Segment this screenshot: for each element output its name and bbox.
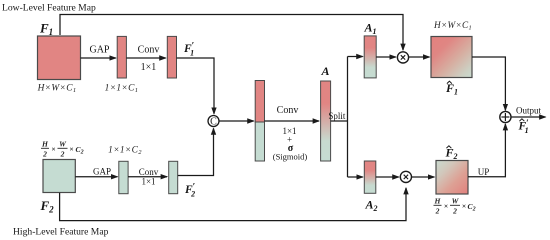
svg-text:×: × (444, 202, 448, 211)
svg-text:2: 2 (60, 150, 65, 159)
svg-text:F′1: F′1 (183, 42, 195, 58)
wire low-level skip connection top (60, 15, 403, 51)
bar A attention (321, 81, 331, 161)
feature map F2 (43, 160, 75, 193)
svg-text:F′2: F′2 (184, 183, 196, 199)
bar F2prime (169, 161, 178, 193)
wire multiply2 to F2hat (412, 176, 435, 178)
svg-text:×: × (462, 202, 466, 211)
node multiply 2 (400, 171, 411, 182)
svg-text:H: H (41, 140, 49, 149)
svg-text:GAP: GAP (93, 167, 111, 177)
wire F2hat UP to add (468, 124, 505, 177)
svg-text:H×W×C1: H×W×C1 (433, 20, 472, 32)
feature map F1 (38, 36, 81, 80)
node add output (500, 111, 511, 122)
bar concat green half (255, 122, 264, 161)
svg-text:Low-Level Feature Map: Low-Level Feature Map (2, 3, 96, 14)
svg-text:2: 2 (435, 207, 440, 216)
wire multiply1 to F1hat (409, 56, 430, 58)
wire GAP arrow F2 to bar (75, 176, 117, 178)
wire conv sigmoid arrow to A (265, 120, 320, 122)
svg-text:2: 2 (42, 150, 47, 159)
svg-text:1×1×C1: 1×1×C1 (105, 84, 139, 95)
wire high-level skip connection bottom (60, 188, 406, 221)
svg-text:Split: Split (328, 111, 346, 121)
bar GAP result 1x1xC1 (117, 36, 126, 78)
bar concat red half (255, 81, 264, 123)
svg-text:Output: Output (516, 106, 542, 116)
wire Conv arrow top (126, 57, 165, 59)
label H/2 x W/2 x C2 below F2hat (434, 197, 476, 216)
bar A1 (364, 36, 376, 78)
node multiply 1 (397, 52, 408, 63)
svg-text:UP: UP (478, 167, 490, 177)
wire output arrow (511, 116, 546, 118)
feature map F2hat (436, 161, 468, 195)
wire C to concat bar (219, 120, 254, 122)
label H/2 x W/2 x C2 above F2 (41, 140, 84, 159)
svg-text:×: × (69, 145, 73, 154)
svg-text:A: A (321, 64, 330, 78)
svg-text:F′1: F′1 (518, 119, 530, 135)
wire A to split junction (331, 120, 348, 122)
bar A2 (364, 161, 376, 193)
svg-text:1×1: 1×1 (141, 62, 157, 73)
svg-text:C: C (210, 117, 217, 128)
svg-text:H×W×C1: H×W×C1 (37, 84, 77, 95)
wire F1hat to add (472, 57, 505, 110)
feature map F1hat (431, 37, 472, 78)
svg-text:×: × (51, 145, 55, 154)
svg-text:1×1: 1×1 (141, 177, 155, 187)
svg-text:Conv: Conv (277, 105, 299, 116)
wire A1 to multiply (376, 56, 396, 58)
wire A2 to multiply2 (376, 176, 399, 178)
wire Conv arrow bottom (128, 176, 167, 178)
svg-text:GAP: GAP (89, 45, 109, 56)
svg-text:(Sigmoid): (Sigmoid) (273, 152, 308, 162)
wire split vertical (347, 57, 349, 178)
bar GAP result 1x1xC2 (119, 161, 128, 193)
wire split to A2 (348, 176, 363, 178)
wire split to A1 (348, 56, 363, 58)
svg-text:H: H (434, 197, 442, 206)
svg-text:Conv: Conv (138, 45, 160, 56)
node concat C circle (208, 116, 219, 127)
wire GAP arrow F1 to bar (81, 57, 116, 59)
bar F1prime (167, 36, 176, 78)
svg-text:High-Level Feature Map: High-Level Feature Map (13, 227, 109, 238)
wire F2prime to concat C (178, 128, 214, 175)
svg-text:2: 2 (452, 207, 457, 216)
wire F1prime to concat C (177, 58, 215, 114)
svg-text:Conv: Conv (139, 167, 159, 177)
svg-text:1×1×C2: 1×1×C2 (108, 146, 142, 157)
